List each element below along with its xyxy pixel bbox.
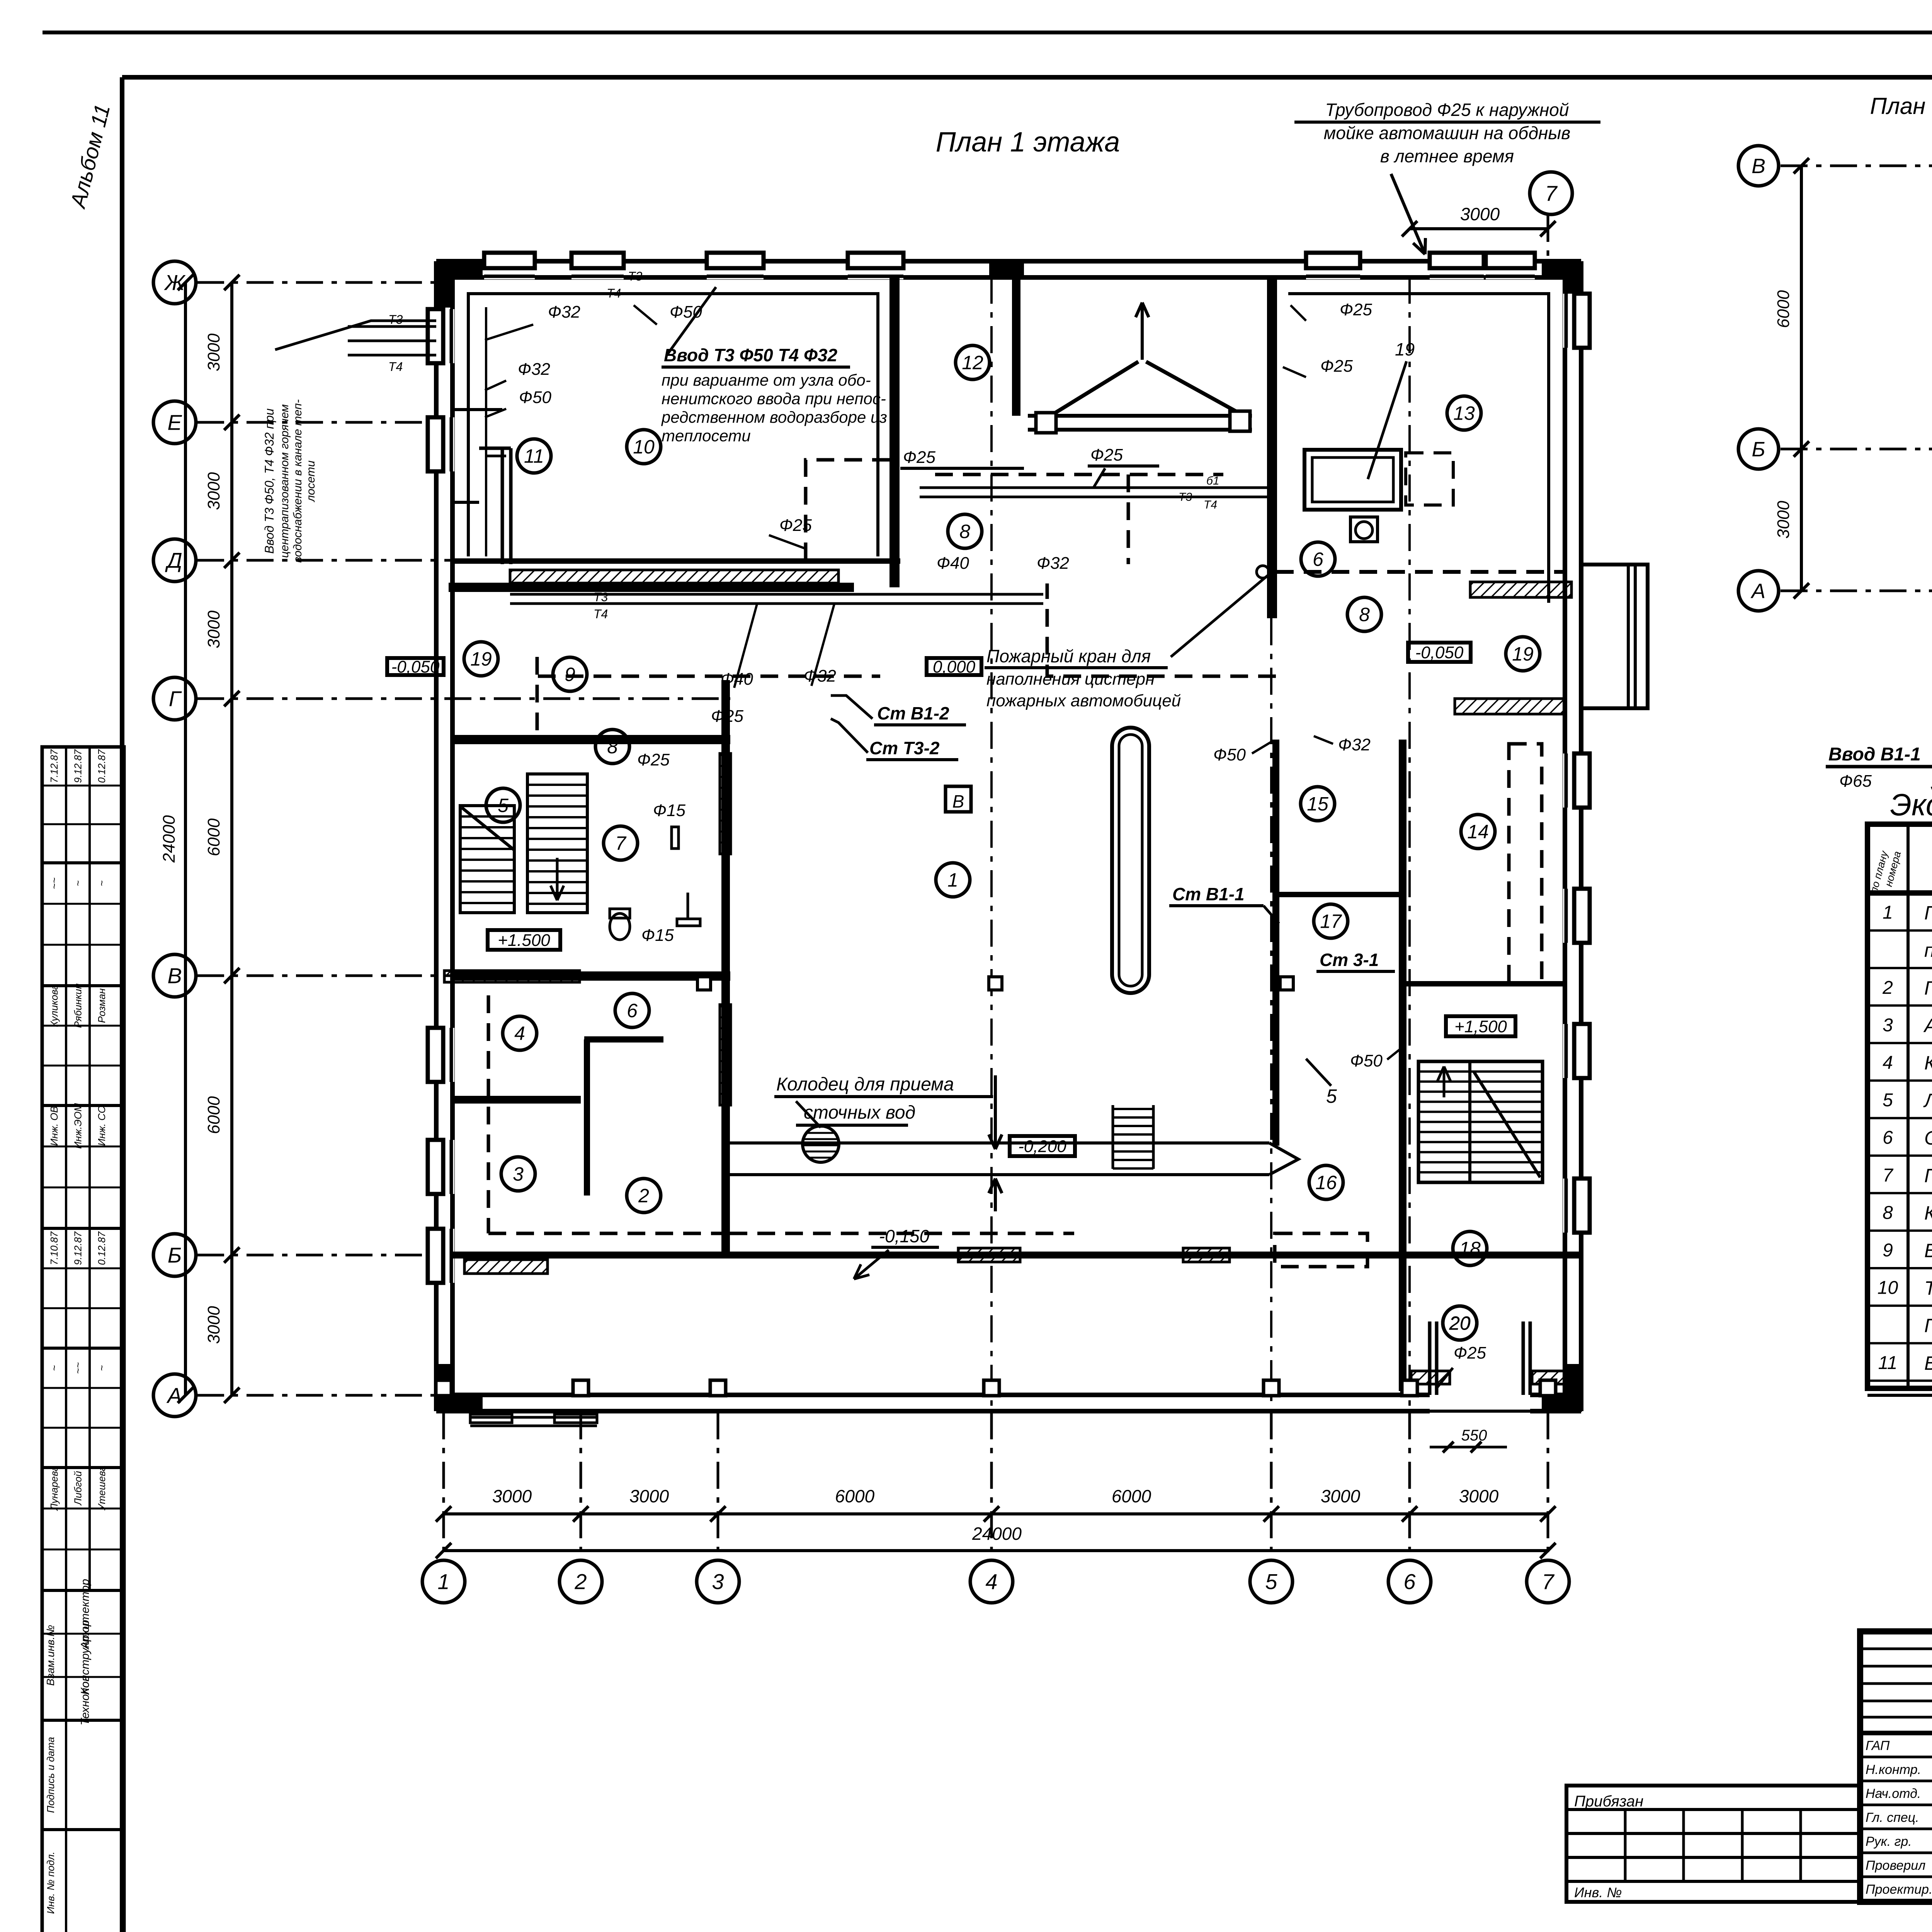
- svg-text:в летнее время: в летнее время: [1380, 146, 1514, 166]
- svg-text:12: 12: [962, 352, 983, 374]
- svg-text:14: 14: [1467, 821, 1489, 843]
- svg-text:3000: 3000: [1460, 204, 1500, 224]
- svg-text:Ф40: Ф40: [721, 670, 753, 689]
- svg-text:Пункт связи части: Пункт связи части: [1924, 977, 1932, 999]
- svg-text:Взам.инв.№: Взам.инв.№: [44, 1625, 56, 1686]
- svg-text:б1: б1: [1206, 474, 1219, 487]
- svg-text:9.12.87: 9.12.87: [72, 1231, 84, 1265]
- svg-text:Вестибюль: Вестибюль: [1924, 1240, 1932, 1261]
- svg-text:Ф50: Ф50: [1213, 745, 1246, 764]
- svg-text:Ввод В1-1: Ввод В1-1: [1828, 744, 1921, 765]
- svg-text:~: ~: [72, 880, 84, 886]
- svg-text:Н.контр.: Н.контр.: [1866, 1762, 1921, 1777]
- svg-text:2: 2: [1882, 978, 1893, 998]
- svg-text:ГАП: ГАП: [1866, 1738, 1890, 1753]
- svg-text:6: 6: [1403, 1570, 1416, 1594]
- svg-text:пожарных автомобицей: пожарных автомобицей: [986, 691, 1181, 710]
- svg-text:5: 5: [1326, 1085, 1337, 1107]
- svg-text:Куликова: Куликова: [48, 984, 60, 1027]
- svg-text:Лестница 1: Лестница 1: [1923, 1090, 1932, 1111]
- svg-text:лосети: лосети: [304, 460, 317, 502]
- svg-text:Ф65: Ф65: [1839, 772, 1872, 791]
- svg-text:1: 1: [947, 869, 958, 891]
- svg-text:центрапизованном горячем: центрапизованном горячем: [278, 404, 291, 558]
- svg-text:при варианте от узла обо-: при варианте от узла обо-: [662, 371, 871, 389]
- svg-text:Ф50: Ф50: [1350, 1051, 1383, 1070]
- svg-text:17: 17: [1320, 911, 1342, 932]
- svg-text:7: 7: [1542, 1570, 1554, 1594]
- svg-text:В: В: [167, 964, 182, 988]
- svg-text:0.12.87: 0.12.87: [96, 749, 107, 783]
- svg-text:19: 19: [1512, 643, 1534, 665]
- svg-text:Т4: Т4: [388, 360, 403, 374]
- svg-text:10: 10: [1878, 1278, 1898, 1298]
- svg-text:Трубопровод Ф25 к наружной: Трубопровод Ф25 к наружной: [1325, 100, 1569, 120]
- svg-text:8: 8: [607, 736, 618, 758]
- svg-text:3000: 3000: [204, 333, 223, 371]
- svg-text:Д: Д: [165, 548, 182, 573]
- svg-text:Рук. гр.: Рук. гр.: [1866, 1834, 1912, 1849]
- svg-text:пожарной техники: пожарной техники: [1924, 940, 1932, 961]
- svg-text:редственном водоразборе из: редственном водоразборе из: [661, 408, 887, 426]
- svg-text:Ст 3-1: Ст 3-1: [1320, 950, 1379, 970]
- svg-text:водоснабжении в канале теп-: водоснабжении в канале теп-: [291, 399, 304, 563]
- svg-text:~: ~: [96, 1365, 107, 1371]
- svg-text:А: А: [166, 1383, 182, 1408]
- svg-text:Ф32: Ф32: [1338, 735, 1371, 754]
- svg-text:3: 3: [513, 1163, 524, 1185]
- svg-text:Пожарный кран для: Пожарный кран для: [986, 646, 1151, 666]
- svg-text:18: 18: [1459, 1238, 1481, 1260]
- svg-text:+1.500: +1.500: [498, 931, 550, 950]
- svg-text:550: 550: [1461, 1427, 1487, 1444]
- svg-text:-0,050: -0,050: [1415, 643, 1464, 662]
- svg-text:Инж. СС: Инж. СС: [96, 1106, 107, 1146]
- svg-text:Помещение обслуживания: Помещение обслуживания: [1924, 902, 1932, 924]
- svg-text:Б: Б: [168, 1243, 182, 1267]
- svg-text:А: А: [1750, 580, 1765, 603]
- svg-text:8: 8: [959, 521, 970, 543]
- svg-text:20: 20: [1449, 1313, 1471, 1334]
- svg-text:6000: 6000: [835, 1486, 875, 1506]
- svg-text:Инж.ЭОМ: Инж.ЭОМ: [72, 1103, 84, 1149]
- svg-text:Т3: Т3: [594, 590, 608, 604]
- svg-text:мойке автомашин на обдныв: мойке автомашин на обдныв: [1324, 123, 1570, 143]
- svg-text:Т3: Т3: [628, 269, 643, 283]
- svg-text:Ф25: Ф25: [1090, 446, 1123, 464]
- svg-text:Коридор: Коридор: [1924, 1202, 1932, 1224]
- svg-text:Ф40: Ф40: [937, 554, 969, 573]
- svg-text:4: 4: [514, 1023, 525, 1044]
- svg-text:Б: Б: [1752, 438, 1765, 461]
- svg-text:Ст В1-1: Ст В1-1: [1172, 884, 1245, 904]
- svg-text:Либгой: Либгой: [72, 1471, 84, 1506]
- svg-text:11: 11: [1878, 1353, 1898, 1373]
- svg-text:Приточная венткамера: Приточная венткамера: [1924, 1315, 1932, 1337]
- svg-text:11: 11: [524, 446, 544, 467]
- svg-text:15: 15: [1307, 793, 1328, 815]
- svg-text:19: 19: [1395, 339, 1415, 359]
- svg-text:-0,050: -0,050: [391, 657, 440, 676]
- svg-text:Ф32: Ф32: [1037, 554, 1069, 573]
- svg-text:4: 4: [1883, 1053, 1893, 1073]
- svg-text:16: 16: [1315, 1172, 1337, 1194]
- svg-text:7: 7: [1883, 1165, 1894, 1185]
- svg-text:ненитского ввода при непос-: ненитского ввода при непос-: [662, 389, 886, 408]
- svg-text:~: ~: [48, 1365, 60, 1371]
- svg-text:В: В: [952, 791, 964, 811]
- svg-text:3000: 3000: [204, 472, 223, 510]
- svg-text:7.12.87: 7.12.87: [48, 749, 60, 783]
- svg-text:Е: Е: [167, 410, 182, 435]
- svg-text:1: 1: [437, 1570, 449, 1594]
- svg-text:Воздухозаборная шахта: Воздухозаборная шахта: [1924, 1352, 1932, 1374]
- svg-text:3000: 3000: [492, 1486, 532, 1506]
- svg-text:Инв. № подл.: Инв. № подл.: [45, 1852, 56, 1914]
- svg-text:Т4: Т4: [1204, 498, 1217, 511]
- svg-text:Нач.отд.: Нач.отд.: [1866, 1786, 1921, 1801]
- svg-text:Ф25: Ф25: [1340, 300, 1372, 319]
- svg-text:9: 9: [1883, 1240, 1893, 1260]
- svg-text:Ф25: Ф25: [779, 516, 812, 535]
- svg-text:8: 8: [1359, 604, 1370, 626]
- svg-text:Ф32: Ф32: [804, 667, 836, 685]
- svg-text:Ст В1-2: Ст В1-2: [877, 703, 949, 723]
- svg-text:~~: ~~: [72, 1362, 84, 1374]
- svg-text:3000: 3000: [1774, 501, 1793, 539]
- svg-text:1: 1: [1883, 903, 1893, 923]
- svg-text:Рябинкин: Рябинкин: [72, 983, 84, 1028]
- svg-text:Ж: Ж: [163, 270, 186, 295]
- svg-text:Г: Г: [169, 687, 182, 711]
- svg-text:Проектир.: Проектир.: [1866, 1882, 1932, 1897]
- svg-text:7: 7: [615, 833, 627, 854]
- svg-text:5: 5: [1883, 1090, 1893, 1111]
- svg-text:Розман: Розман: [96, 988, 107, 1023]
- svg-text:Т4: Т4: [594, 607, 608, 621]
- svg-text:3000: 3000: [204, 611, 223, 648]
- svg-text:Ф25: Ф25: [637, 750, 670, 769]
- svg-text:Ф50: Ф50: [519, 388, 551, 407]
- svg-text:Ввод Т3 Ф50 Т4 Ф32: Ввод Т3 Ф50 Т4 Ф32: [664, 345, 837, 365]
- svg-text:5: 5: [1265, 1570, 1277, 1594]
- svg-text:Ввод Т3 Ф50, Т4 Ф32 при: Ввод Т3 Ф50, Т4 Ф32 при: [262, 408, 276, 554]
- svg-text:Ф25: Ф25: [903, 448, 935, 467]
- svg-text:Ф25: Ф25: [1320, 357, 1353, 376]
- svg-text:6000: 6000: [1774, 290, 1793, 328]
- svg-text:6000: 6000: [1112, 1486, 1151, 1506]
- svg-text:теплосети: теплосети: [662, 427, 751, 445]
- svg-text:~: ~: [96, 880, 107, 886]
- svg-text:Сан. узел: Сан. узел: [1924, 1127, 1932, 1149]
- svg-text:Аппаратная: Аппаратная: [1923, 1015, 1932, 1036]
- svg-text:+1,500: +1,500: [1454, 1017, 1507, 1036]
- svg-text:0,000: 0,000: [933, 657, 976, 676]
- svg-text:Комната отдыха: Комната отдыха: [1924, 1052, 1932, 1074]
- svg-text:4: 4: [985, 1570, 997, 1594]
- svg-text:Ф15: Ф15: [641, 926, 674, 945]
- svg-text:Помещение спуска по столбам: Помещение спуска по столбам: [1924, 1165, 1932, 1186]
- svg-text:Технолог: Технолог: [79, 1675, 92, 1725]
- svg-text:Утешева: Утешева: [96, 1466, 107, 1511]
- svg-text:3000: 3000: [204, 1306, 223, 1344]
- svg-text:План подвала между осями 6-7 и: План подвала между осями 6-7 и А-В: [1870, 93, 1932, 119]
- svg-text:3000: 3000: [1459, 1486, 1499, 1506]
- svg-text:наполнения цистерн: наполнения цистерн: [986, 670, 1155, 689]
- svg-text:19: 19: [470, 648, 492, 670]
- svg-text:3: 3: [1883, 1015, 1893, 1036]
- svg-text:6: 6: [1313, 549, 1323, 570]
- svg-text:Ф32: Ф32: [518, 360, 550, 379]
- svg-text:8: 8: [1883, 1202, 1893, 1223]
- svg-text:Инв. №: Инв. №: [1574, 1884, 1622, 1900]
- svg-text:24000: 24000: [160, 815, 179, 863]
- svg-text:Тепловой узел ввода: Тепловой узел ввода: [1924, 1277, 1932, 1299]
- svg-text:Подпись и дата: Подпись и дата: [45, 1737, 56, 1813]
- svg-text:6: 6: [1883, 1128, 1893, 1148]
- svg-text:7: 7: [1545, 181, 1558, 206]
- svg-text:3: 3: [712, 1570, 724, 1594]
- svg-text:Ф32: Ф32: [548, 303, 580, 321]
- svg-text:В: В: [1752, 155, 1765, 178]
- svg-text:Ф15: Ф15: [653, 801, 685, 820]
- svg-text:Гл. спец.: Гл. спец.: [1866, 1810, 1919, 1825]
- svg-text:~~: ~~: [48, 878, 60, 889]
- svg-text:Проверил: Проверил: [1866, 1858, 1925, 1873]
- svg-text:сточных вод: сточных вод: [804, 1102, 915, 1123]
- svg-text:-0,200: -0,200: [1018, 1137, 1066, 1156]
- svg-text:3000: 3000: [1321, 1486, 1361, 1506]
- svg-text:Т4: Т4: [607, 286, 621, 300]
- svg-text:6: 6: [627, 1000, 638, 1022]
- svg-text:5: 5: [498, 795, 509, 816]
- svg-text:Колодец для приема: Колодец для приема: [776, 1074, 954, 1095]
- svg-text:10: 10: [633, 436, 655, 458]
- svg-text:План 1 этажа: План 1 этажа: [936, 127, 1120, 158]
- svg-text:Ф25: Ф25: [711, 707, 743, 726]
- svg-text:0.12.87: 0.12.87: [96, 1231, 107, 1265]
- svg-text:13: 13: [1453, 403, 1475, 424]
- svg-text:Ф25: Ф25: [1454, 1344, 1486, 1362]
- svg-text:2: 2: [638, 1185, 649, 1207]
- svg-text:Прибязан: Прибязан: [1574, 1793, 1643, 1810]
- svg-text:6000: 6000: [204, 1096, 223, 1134]
- svg-text:2: 2: [574, 1570, 587, 1594]
- svg-text:Инж. ОВ: Инж. ОВ: [48, 1106, 60, 1146]
- svg-text:-0,150: -0,150: [879, 1226, 930, 1246]
- svg-text:Лунарева: Лунарева: [48, 1466, 60, 1511]
- svg-text:3000: 3000: [629, 1486, 669, 1506]
- svg-text:24000: 24000: [972, 1524, 1022, 1544]
- svg-text:Т3: Т3: [1179, 491, 1192, 503]
- svg-text:9: 9: [565, 664, 575, 685]
- svg-text:7.10.87: 7.10.87: [48, 1231, 60, 1265]
- svg-text:Ст Т3-2: Ст Т3-2: [869, 738, 940, 758]
- svg-text:9.12.87: 9.12.87: [72, 749, 84, 783]
- svg-text:Экспликация помещений: Экспликация помещений: [1890, 787, 1932, 822]
- svg-text:6000: 6000: [204, 818, 223, 856]
